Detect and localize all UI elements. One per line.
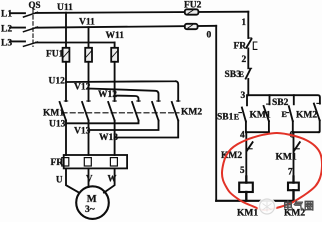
svg-text:W11: W11 xyxy=(106,31,125,41)
svg-text:KM2: KM2 xyxy=(181,108,202,118)
svg-text:KM1: KM1 xyxy=(276,153,297,163)
svg-text:SB1: SB1 xyxy=(217,113,234,123)
svg-text:KM1: KM1 xyxy=(43,109,64,119)
svg-text:L2: L2 xyxy=(1,25,12,35)
svg-text:4: 4 xyxy=(240,131,245,141)
svg-text:E: E xyxy=(282,110,287,119)
svg-text:U12: U12 xyxy=(49,77,66,87)
svg-text:7: 7 xyxy=(288,167,293,177)
svg-text:E: E xyxy=(234,112,239,121)
svg-text:FR: FR xyxy=(51,158,64,168)
svg-text:V11: V11 xyxy=(79,18,95,28)
svg-text:QS: QS xyxy=(29,0,41,10)
svg-text:FR: FR xyxy=(234,42,247,52)
svg-text:0: 0 xyxy=(207,31,212,41)
svg-text:KM2: KM2 xyxy=(296,111,317,121)
svg-text:KM1: KM1 xyxy=(237,209,258,219)
svg-text:W13: W13 xyxy=(99,133,118,143)
svg-text:FU2: FU2 xyxy=(184,1,202,11)
svg-text:FU1: FU1 xyxy=(46,50,64,60)
svg-text:M: M xyxy=(87,194,97,205)
svg-text:U13: U13 xyxy=(49,120,66,130)
svg-text:V12: V12 xyxy=(74,83,91,93)
svg-text:L3: L3 xyxy=(1,39,12,49)
svg-text:3~: 3~ xyxy=(85,205,95,215)
svg-text:V13: V13 xyxy=(74,127,91,137)
svg-text:W: W xyxy=(108,174,117,184)
svg-text:L1: L1 xyxy=(1,10,12,20)
svg-text:SB2: SB2 xyxy=(272,98,289,108)
svg-text:U11: U11 xyxy=(57,3,73,13)
svg-text:V: V xyxy=(86,174,93,184)
svg-text:2: 2 xyxy=(242,55,247,65)
svg-text:3: 3 xyxy=(241,91,246,101)
svg-text:电气圈: 电气圈 xyxy=(283,200,315,213)
svg-text:1: 1 xyxy=(242,17,247,27)
svg-text:E: E xyxy=(239,70,244,79)
svg-text:U: U xyxy=(56,175,63,185)
svg-text:5: 5 xyxy=(240,165,245,175)
svg-text:KM1: KM1 xyxy=(250,111,271,121)
svg-text:W12: W12 xyxy=(98,90,117,100)
